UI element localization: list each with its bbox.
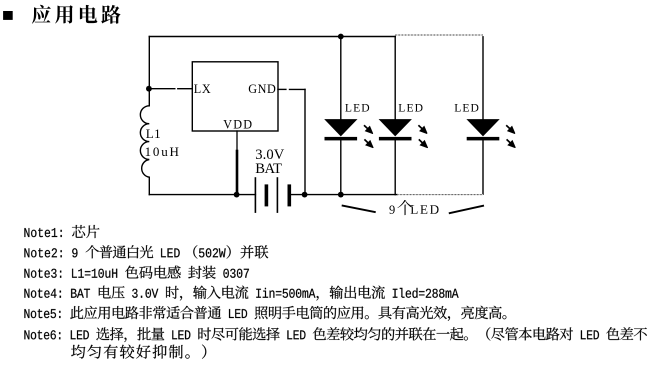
note line 4 [24,286,458,301]
junction dot GND / bottom rail [302,192,308,198]
LED D2 light arrow 2 [419,139,425,145]
section title 应用电路 [32,5,121,24]
note line 3 [24,266,249,279]
svg-text:LED: LED [454,101,480,114]
LED D2 [379,119,412,140]
wire bottom rail right (battery to LED branch 2) [289,194,397,196]
dashed continuation bottom (omitted LEDs) [397,194,483,196]
LED D3 light arrow 1 [506,125,512,131]
junction dot VDD / bottom rail [234,192,240,198]
wire LX pin to left rail (with break) [149,88,175,90]
dashed continuation top (omitted LEDs) [395,34,483,36]
wire GND pin right (with break) [278,88,286,90]
note line 5 [24,306,506,321]
IC U1 body [192,62,278,131]
note line 1 [24,225,99,238]
wire GND vertical down to bottom rail [304,89,306,194]
svg-text:LX: LX [194,82,211,96]
junction dot top rail / LED branch 1 [338,34,344,40]
battery BAT plate 4 short thick [287,184,291,206]
VDD pin wire thick [236,151,239,195]
note line 2 [24,245,268,258]
junction dot bottom rail / LED branch 1 [338,192,344,198]
svg-text:LED: LED [345,101,371,114]
LED D1 light arrow 2 [364,139,370,145]
inductor L1 coil [140,106,149,177]
wire top rail [149,36,395,38]
LED D1 [324,119,357,140]
svg-text:BAT: BAT [255,161,282,177]
wire left vertical lower (inductor to bottom rail) [148,177,150,194]
wire LED branch 3 upper [482,37,484,120]
wire bottom rail left (to battery) [149,194,255,196]
svg-text:GND: GND [248,82,276,96]
junction dot at LX / inductor node [146,86,152,92]
wire LED branch 2 upper [394,37,396,120]
LED D2 light arrow 1 [418,125,424,131]
brace right diagonal under LED group [449,206,484,214]
brace left diagonal under LED group [342,205,376,212]
wire left vertical upper (top rail to inductor) [148,37,150,106]
svg-text:10uH: 10uH [145,144,181,159]
section title bullet square [3,11,13,20]
LED D3 [466,119,499,140]
wire LED branch 2 lower [394,140,396,194]
wire LED branch 1 lower [340,140,342,194]
battery BAT plate 3 long [276,177,278,213]
wire LED branch 1 upper [340,37,342,120]
battery BAT plate 1 long [254,177,256,213]
group label 9个LED [389,200,438,215]
VDD pin wire thin [236,131,238,153]
note line 7 [71,345,206,359]
LED D1 light arrow 1 [364,125,370,131]
LED D3 light arrow 2 [507,139,513,145]
battery BAT plate 2 short thick [265,184,269,206]
svg-text:VDD: VDD [223,118,253,132]
note line 6 [24,327,647,342]
wire LED branch 3 lower [482,140,484,194]
svg-text:L1: L1 [146,126,161,141]
svg-text:LED: LED [398,101,424,114]
